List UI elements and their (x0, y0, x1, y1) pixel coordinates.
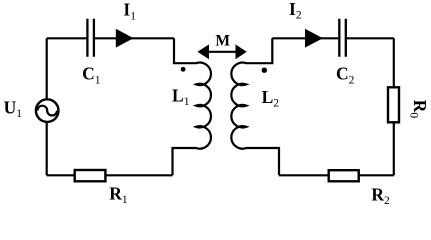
svg-text:L1: L1 (172, 85, 190, 108)
wire left vertical upper (corner to source) (46, 38, 48, 99)
svg-text:M: M (215, 33, 230, 50)
inductor L2 with connecting wires (231, 38, 279, 175)
svg-text:U1: U1 (4, 97, 23, 120)
resistor R0 (388, 87, 399, 122)
capacitor C2 (339, 19, 346, 57)
mutual coupling arrow M shaft (207, 51, 237, 53)
svg-text:I2: I2 (289, 0, 302, 22)
wire bottom-right (279, 174, 394, 176)
resistor R2 (329, 170, 359, 181)
sine wave inside source (37, 106, 57, 116)
wire left vertical lower (source to bottom) (46, 122, 48, 175)
svg-text:R0: R0 (407, 100, 430, 119)
current arrow I1 (116, 29, 134, 48)
M arrowhead left (197, 44, 209, 59)
wire bottom-left (47, 174, 173, 176)
AC source U1 (36, 99, 59, 122)
wire top-left (source top to C1) (47, 37, 87, 39)
svg-text:R2: R2 (371, 184, 390, 207)
current arrow I2 (305, 29, 323, 48)
inductor L1 with connecting wires (173, 38, 211, 175)
wire C2 to top-right corner (347, 37, 394, 39)
M arrowhead right (236, 44, 247, 59)
resistor R1 (75, 170, 106, 181)
capacitor C1 (87, 19, 94, 57)
wire C1 to top-right corner of left loop (95, 37, 174, 39)
wire right vertical (393, 38, 395, 175)
svg-text:L2: L2 (262, 87, 280, 110)
wire top-right (corner to C2) (272, 37, 338, 39)
polarity dot L1 (181, 67, 186, 72)
svg-text:I1: I1 (123, 0, 136, 22)
svg-text:C1: C1 (82, 64, 101, 87)
svg-text:R1: R1 (109, 183, 128, 206)
svg-text:C2: C2 (336, 64, 355, 87)
polarity dot L2 (262, 68, 267, 73)
